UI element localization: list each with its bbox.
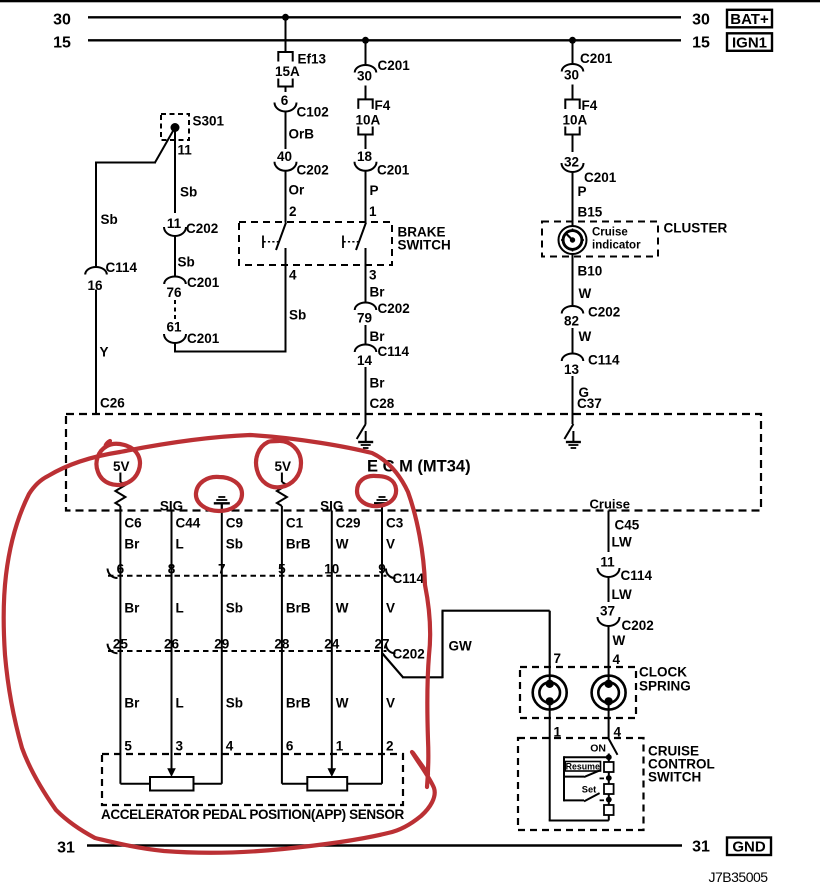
svg-text:indicator: indicator: [592, 240, 641, 252]
wire P / B15 to cluster: [572, 172, 574, 226]
wire W C202 to clock spring pin 4: [608, 626, 610, 667]
svg-text:4: 4: [613, 652, 621, 667]
svg-text:C6: C6: [124, 516, 142, 531]
wire pin 1 to switch common: [549, 739, 609, 821]
svg-text:L: L: [176, 696, 184, 711]
svg-text:W: W: [579, 286, 592, 301]
wire bus30 to fuse Ef13: [285, 17, 287, 52]
svg-text:79: 79: [357, 311, 372, 326]
wire GW from C202 pin 27 to clock spring pin 7: [382, 611, 550, 679]
svg-text:2: 2: [386, 739, 394, 754]
svg-text:C9: C9: [226, 516, 243, 531]
svg-text:5V: 5V: [274, 459, 291, 474]
wire S301 down to C202 pin 11: [174, 128, 176, 214]
brake switch box: [239, 222, 392, 265]
svg-text:11: 11: [167, 216, 182, 231]
svg-text:Ef13: Ef13: [298, 52, 327, 67]
svg-text:25: 25: [113, 637, 129, 652]
svg-text:Sb: Sb: [226, 601, 243, 616]
svg-text:11: 11: [178, 143, 193, 158]
svg-text:15: 15: [53, 35, 71, 52]
svg-text:1: 1: [369, 204, 377, 219]
connector C202 pin 11: [164, 216, 218, 236]
svg-text:OrB: OrB: [289, 127, 315, 142]
svg-text:1: 1: [336, 739, 344, 754]
resume/set common rail: [564, 756, 609, 801]
ECM 5V supply with pull-up resistor R2 (pin C1): [274, 459, 291, 506]
svg-text:30: 30: [53, 12, 71, 29]
switch ladder: main line, dots and element boxes: [604, 754, 614, 821]
APP potentiometer 2: [282, 768, 382, 790]
svg-text:5V: 5V: [113, 459, 130, 474]
ECM internal ground at C28: [357, 424, 374, 448]
wire Br C114 into ECM pin C28: [365, 367, 367, 424]
svg-text:L: L: [176, 601, 184, 616]
connector C114 pin 16: [85, 260, 137, 293]
connector C201 pin 76: [164, 275, 220, 300]
svg-text:4: 4: [289, 268, 297, 283]
svg-text:8: 8: [168, 562, 176, 577]
connector row C202 pins 25 26 29 28 24 27: [108, 637, 425, 662]
svg-text:F4: F4: [375, 98, 391, 113]
brake switch label: [398, 225, 451, 253]
svg-text:28: 28: [274, 637, 290, 652]
svg-text:15A: 15A: [275, 64, 300, 79]
svg-text:31: 31: [57, 840, 75, 857]
svg-text:4: 4: [226, 739, 234, 754]
svg-text:LW: LW: [612, 587, 633, 602]
red annotation big loop around APP sensor circuit: [120, 435, 430, 787]
wire Br brake pin 3 to C202 pin 79: [365, 280, 367, 303]
cruise control switch box: [518, 738, 644, 830]
svg-text:C28: C28: [370, 396, 395, 411]
svg-text:40: 40: [277, 149, 292, 164]
svg-text:C114: C114: [106, 260, 138, 275]
cluster box: [542, 222, 658, 257]
svg-text:37: 37: [600, 604, 615, 619]
wire fuse F4 to C201 pin 18: [365, 135, 367, 150]
svg-text:V: V: [386, 601, 395, 616]
svg-text:C202: C202: [378, 301, 410, 316]
svg-text:31: 31: [692, 839, 710, 856]
junction on bus 30 at Ef13 branch: [282, 14, 289, 21]
svg-text:32: 32: [564, 155, 579, 170]
svg-text:C29: C29: [336, 516, 361, 531]
svg-text:Y: Y: [100, 345, 109, 360]
connector C201 pin 30: [562, 51, 613, 83]
svg-text:ON: ON: [590, 743, 606, 755]
wire fuse F4 to C201 pin 32: [572, 135, 574, 153]
svg-text:B10: B10: [578, 264, 603, 279]
connector C114 pin 13: [562, 353, 620, 378]
svg-text:Resume: Resume: [566, 761, 600, 771]
bus line 30 (BAT+): [53, 12, 710, 29]
svg-text:10A: 10A: [563, 113, 588, 128]
junction on bus 15 at F4 branch: [362, 37, 369, 44]
wire colour labels row 2: [124, 601, 395, 616]
APP potentiometer 1: [120, 768, 221, 790]
svg-text:C201: C201: [584, 170, 617, 185]
wire colour labels row 3: [124, 696, 395, 711]
svg-text:C202: C202: [588, 305, 620, 320]
wire Sb ECM C9 to APP pin 4: [221, 503, 223, 784]
svg-text:30: 30: [692, 12, 710, 29]
bus line 15 (IGN1): [53, 35, 710, 52]
svg-text:C201: C201: [378, 58, 411, 73]
connector C202 pin 79: [355, 301, 410, 326]
svg-text:C201: C201: [187, 275, 220, 290]
svg-text:76: 76: [166, 285, 182, 300]
dashed wire inside C201 76 to 61: [174, 300, 176, 319]
wire C201 to fuse F4: [365, 86, 367, 100]
bus line 31 (GND): [57, 839, 710, 857]
svg-text:Sb: Sb: [289, 308, 306, 323]
wire BrB ECM C1 to APP pin 6: [281, 506, 283, 784]
wire C201 to right fuse F4: [572, 85, 574, 100]
svg-text:6: 6: [281, 93, 289, 108]
wire LW ECM C45 to C114 pin 11: [608, 511, 610, 553]
svg-text:27: 27: [374, 637, 389, 652]
splice S301: [161, 114, 225, 158]
wire bus15 to C201 pin 30: [365, 40, 367, 65]
svg-text:C1: C1: [286, 516, 304, 531]
svg-text:Br: Br: [370, 376, 386, 391]
connector C114 pin 14: [355, 344, 410, 368]
svg-text:9: 9: [378, 562, 386, 577]
svg-text:Br: Br: [370, 329, 386, 344]
cruise control switch label: [648, 744, 715, 785]
wire OrB C102 to C202: [285, 112, 287, 150]
svg-text:Cruise: Cruise: [592, 227, 628, 239]
svg-text:10: 10: [324, 562, 339, 577]
ECM internal ground at C37: [564, 424, 581, 448]
connector C102 pin 6: [275, 93, 329, 120]
svg-text:IGN1: IGN1: [732, 35, 767, 52]
svg-text:GND: GND: [732, 839, 766, 856]
wire colour labels row 1: [124, 537, 395, 552]
svg-text:BAT+: BAT+: [730, 11, 769, 28]
clock spring label: [639, 665, 691, 694]
wire W C202 to C114 pin 13: [572, 328, 574, 354]
svg-text:CLUSTER: CLUSTER: [664, 221, 728, 236]
wire W ECM C29 to APP pin 1: [331, 511, 333, 770]
wire fuse Ef13 to C102: [285, 87, 287, 93]
svg-text:P: P: [370, 183, 379, 198]
svg-text:V: V: [386, 537, 395, 552]
fuse F4 10A: [356, 98, 391, 135]
svg-text:C201: C201: [377, 163, 410, 178]
page top border line: [0, 0, 820, 2]
svg-text:C44: C44: [176, 516, 201, 531]
wire Br ECM C6 to APP pin 5: [119, 506, 121, 784]
APP sensor box: [102, 754, 403, 805]
svg-text:7: 7: [554, 651, 562, 666]
clock spring coil contact left: [533, 667, 567, 739]
svg-text:SPRING: SPRING: [639, 679, 691, 694]
ECM internal ground (pin C3): [379, 496, 386, 498]
svg-text:Sb: Sb: [101, 212, 118, 227]
svg-text:W: W: [336, 537, 349, 552]
ON switch blade: [590, 739, 617, 755]
wire Y C114 into ECM pin C26: [95, 290, 97, 415]
svg-text:ACCELERATOR PEDAL POSITION(APP: ACCELERATOR PEDAL POSITION(APP) SENSOR: [101, 807, 404, 822]
svg-text:P: P: [578, 184, 587, 199]
svg-text:Sb: Sb: [226, 696, 243, 711]
wire bus15 to right C201 pin 30: [572, 40, 574, 64]
wire Sb brake pin 4 down and left to C201 pin 61: [174, 280, 306, 352]
svg-text:C201: C201: [580, 51, 613, 66]
svg-text:W: W: [613, 633, 626, 648]
svg-text:14: 14: [357, 353, 373, 368]
wire Sb left drop to C114 pin 16: [95, 162, 97, 268]
svg-text:C202: C202: [393, 647, 425, 662]
connector C114 pin 11: [598, 555, 653, 584]
Set switch: [564, 785, 604, 802]
cruise indicator lamp U1: [559, 226, 587, 254]
svg-text:61: 61: [166, 320, 182, 335]
wire P C201 to brake switch pin 1: [365, 171, 367, 223]
svg-text:L: L: [176, 537, 184, 552]
wire Or C202 to brake switch pin 2: [285, 171, 287, 223]
connector C201 pin 32: [562, 155, 617, 186]
connector C202 pin 82: [562, 305, 621, 329]
svg-text:C114: C114: [378, 344, 410, 359]
svg-text:82: 82: [564, 314, 579, 329]
svg-text:Br: Br: [124, 537, 140, 552]
svg-text:C202: C202: [622, 618, 654, 633]
svg-text:C37: C37: [577, 396, 602, 411]
svg-text:C114: C114: [393, 571, 425, 586]
svg-text:W: W: [336, 601, 349, 616]
svg-text:C202: C202: [297, 163, 329, 178]
APP sensor pin number labels 5 3 4 6 1 2: [124, 739, 393, 754]
red annotation circle around 5V (C1): [256, 441, 301, 487]
clock spring box: [520, 667, 636, 718]
svg-text:15: 15: [692, 35, 710, 52]
svg-text:10A: 10A: [356, 113, 381, 128]
svg-text:BrB: BrB: [286, 537, 311, 552]
wire S301 diagonal to left drop: [96, 128, 175, 163]
svg-text:C3: C3: [386, 516, 404, 531]
svg-text:V: V: [386, 696, 395, 711]
brake switch contact pins 1-3: [343, 223, 366, 281]
svg-text:7: 7: [218, 562, 226, 577]
IGN1 terminal box: [727, 33, 772, 51]
connector C201 pin 61: [164, 320, 220, 347]
svg-text:CLOCK: CLOCK: [639, 665, 687, 680]
svg-text:30: 30: [357, 69, 372, 84]
svg-text:C202: C202: [186, 221, 218, 236]
svg-text:Br: Br: [124, 601, 140, 616]
svg-text:3: 3: [176, 739, 184, 754]
svg-text:C114: C114: [588, 353, 620, 368]
red annotation loop bottom and left side: [4, 452, 435, 853]
ECM internal ground (pin C9): [218, 496, 225, 498]
red annotation hook crossing stroke: [413, 753, 428, 774]
svg-text:Br: Br: [370, 285, 386, 300]
wire G C114 into ECM pin C37: [572, 376, 574, 424]
wire Br C202 to C114 pin 14: [365, 325, 367, 345]
wire Sb C202 to C201 pin 76: [174, 236, 176, 277]
clock spring coil contact right: [592, 667, 626, 739]
connector C202 pin 40: [275, 149, 329, 178]
wire B10 / W cluster to C202 pin 82: [572, 254, 574, 306]
svg-text:29: 29: [214, 637, 229, 652]
svg-text:W: W: [336, 696, 349, 711]
svg-text:BrB: BrB: [286, 601, 311, 616]
red annotation circle around ground C9: [196, 477, 242, 511]
red annotation circle around 5V (C6): [96, 441, 139, 485]
svg-text:5: 5: [124, 739, 132, 754]
junction on bus 15 at right F4 branch: [569, 37, 576, 44]
svg-text:S301: S301: [193, 114, 225, 129]
svg-text:C201: C201: [187, 331, 220, 346]
ECM 5V supply with pull-up resistor R1 (pin C6): [113, 459, 130, 506]
svg-text:3: 3: [369, 268, 377, 283]
connector row C114 pins 6 8 7 5 10 9: [108, 562, 425, 587]
svg-text:5: 5: [278, 562, 286, 577]
svg-text:W: W: [579, 329, 592, 344]
svg-text:SWITCH: SWITCH: [648, 770, 701, 785]
svg-text:C45: C45: [615, 518, 640, 533]
svg-text:18: 18: [357, 149, 373, 164]
GND terminal box: [727, 838, 771, 856]
svg-text:Cruise: Cruise: [590, 497, 630, 512]
svg-text:30: 30: [564, 68, 579, 83]
svg-text:C114: C114: [621, 568, 653, 583]
svg-text:13: 13: [564, 362, 580, 377]
svg-text:6: 6: [286, 739, 294, 754]
connector C202 pin 37: [598, 604, 654, 634]
fuse F4 10A: [563, 98, 598, 135]
wire C201 61 down to junction with brake pin 4 wire: [174, 343, 176, 353]
fuse Ef13 15A: [275, 52, 327, 87]
svg-text:C26: C26: [100, 396, 125, 411]
svg-text:26: 26: [164, 637, 180, 652]
red annotation circle around ground C3: [357, 476, 396, 506]
svg-text:B15: B15: [578, 205, 603, 220]
brake switch contact pins 2-4: [263, 223, 286, 281]
svg-text:24: 24: [324, 637, 340, 652]
svg-text:Or: Or: [289, 183, 306, 198]
svg-text:J7B35005: J7B35005: [709, 869, 769, 885]
connector C201 pin 30: [355, 58, 411, 84]
connector C201 pin 18: [355, 149, 410, 178]
wire V ECM C3 to APP pin 2: [381, 503, 383, 784]
ECM (MT34) box: [66, 414, 761, 511]
BAT+ terminal box: [727, 10, 772, 28]
svg-text:2: 2: [289, 204, 297, 219]
svg-text:11: 11: [600, 555, 615, 570]
svg-text:Sb: Sb: [178, 255, 195, 270]
svg-text:Sb: Sb: [226, 537, 243, 552]
svg-text:6: 6: [117, 562, 125, 577]
svg-text:Set: Set: [582, 785, 596, 795]
svg-text:Sb: Sb: [180, 185, 197, 200]
svg-text:SWITCH: SWITCH: [398, 238, 451, 253]
svg-text:F4: F4: [582, 98, 598, 113]
svg-text:BrB: BrB: [286, 696, 311, 711]
Resume switch: [564, 761, 604, 778]
wire LW C114 to C202 pin 37: [608, 577, 610, 602]
svg-text:LW: LW: [612, 535, 633, 550]
wire L ECM C44 to APP pin 3: [171, 511, 173, 770]
svg-text:GW: GW: [449, 639, 473, 654]
svg-text:C102: C102: [297, 105, 329, 120]
cruise indicator text: [592, 227, 641, 252]
svg-text:Br: Br: [124, 696, 140, 711]
